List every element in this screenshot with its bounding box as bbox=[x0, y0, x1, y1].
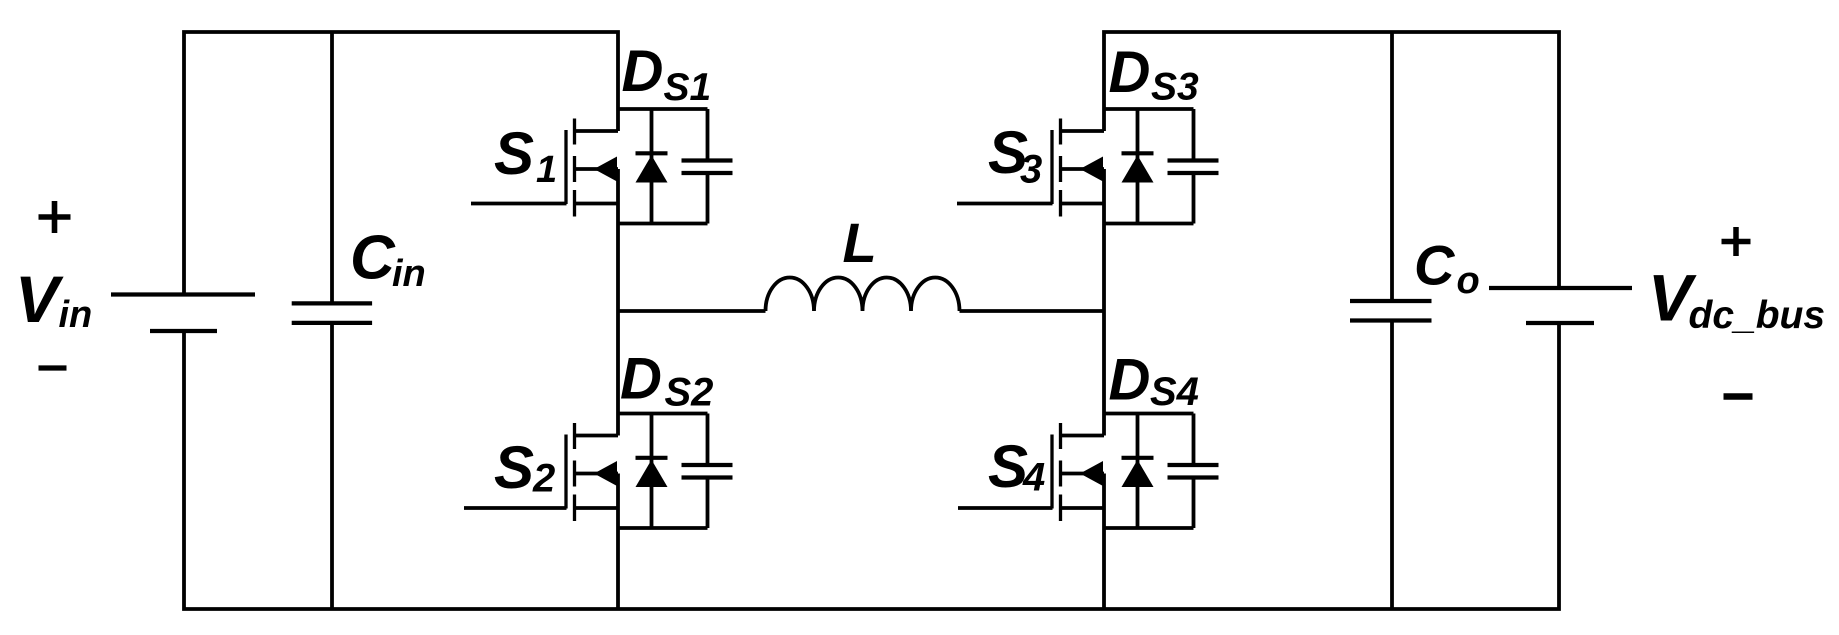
transistor S1 gate bar bbox=[564, 130, 567, 204]
battery Vin long positive plate bbox=[111, 292, 255, 296]
capacitor (snubber DS4) leads bbox=[1192, 414, 1196, 529]
diode DS4 vertical lead bbox=[1136, 414, 1140, 529]
svg-text:4: 4 bbox=[1022, 456, 1045, 500]
transistor S1 channel segments bbox=[573, 119, 576, 217]
transistor S2 gate bar bbox=[564, 435, 567, 509]
svg-text:V: V bbox=[15, 262, 64, 336]
svg-text:L: L bbox=[843, 211, 877, 274]
wire: bottom common rail with Vin- and Vdc- risers bbox=[184, 322, 1559, 609]
capacitor Co bottom lead bbox=[1390, 322, 1394, 609]
svg-text:S: S bbox=[494, 434, 534, 501]
capacitor Cin top lead bbox=[330, 32, 334, 302]
diode DS3 triangle bbox=[1122, 155, 1154, 182]
diode DS1 vertical lead bbox=[650, 109, 654, 224]
snubber DS2 bottom wire bbox=[618, 526, 708, 530]
transistor S1 gate lead bbox=[471, 202, 567, 206]
diode DS2 triangle bbox=[636, 460, 668, 487]
transistor S2 body lead with arrow bbox=[576, 472, 618, 476]
transistor S4 gate lead bbox=[958, 506, 1053, 510]
transistor S1 drain lead bbox=[576, 129, 618, 133]
svg-text:D: D bbox=[1109, 348, 1151, 413]
diode DS2 vertical lead bbox=[650, 414, 654, 529]
capacitor (snubber DS2) leads bbox=[706, 414, 710, 529]
svg-text:D: D bbox=[1109, 40, 1151, 105]
capacitor (snubber DS2) plates bbox=[682, 465, 733, 478]
label - (Vin) bbox=[39, 365, 67, 370]
battery Vdc_bus short negative plate bbox=[1526, 321, 1594, 325]
battery Vdc_bus long positive plate bbox=[1489, 286, 1632, 290]
diode DS2 cathode bar bbox=[636, 456, 668, 460]
label + (Vin) bbox=[39, 201, 71, 233]
capacitor (snubber DS4) plates bbox=[1168, 465, 1219, 478]
transistor S2 drain lead bbox=[576, 434, 618, 438]
svg-text:S4: S4 bbox=[1150, 370, 1199, 414]
svg-text:3: 3 bbox=[1020, 148, 1042, 192]
transistor S4 body lead with arrow bbox=[1062, 472, 1104, 476]
svg-text:in: in bbox=[59, 294, 93, 336]
svg-text:S1: S1 bbox=[664, 66, 712, 109]
transistor S2 gate lead bbox=[464, 506, 567, 510]
diode DS3 vertical lead bbox=[1136, 109, 1140, 224]
svg-text:o: o bbox=[1457, 260, 1480, 302]
battery Vin short negative plate bbox=[150, 329, 217, 333]
transistor S4 gate bar bbox=[1050, 435, 1053, 509]
capacitor (snubber DS1) plates bbox=[682, 161, 733, 174]
svg-text:S2: S2 bbox=[665, 371, 714, 415]
snubber DS4 top wire bbox=[1104, 412, 1194, 416]
transistor S4 drain lead bbox=[1062, 434, 1104, 438]
transistor S3 drain lead bbox=[1062, 129, 1104, 133]
transistor S3 channel segments bbox=[1059, 119, 1062, 217]
snubber DS3 top wire bbox=[1104, 107, 1194, 111]
transistor S2 source lead bbox=[576, 506, 618, 510]
transistor S1 source lead bbox=[576, 202, 618, 206]
snubber DS3 bottom wire bbox=[1104, 222, 1194, 226]
transistor S3 gate bar bbox=[1050, 130, 1053, 204]
wire: mid node to inductor bbox=[618, 309, 766, 313]
capacitor Cin plates bbox=[292, 301, 372, 305]
diode DS4 cathode bar bbox=[1122, 456, 1154, 460]
transistor S1 body lead with arrow bbox=[576, 167, 618, 171]
snubber DS2 top wire bbox=[618, 412, 708, 416]
transistor S2 channel segments bbox=[573, 423, 576, 521]
transistor S3 gate lead bbox=[957, 202, 1053, 206]
svg-text:1: 1 bbox=[536, 149, 557, 191]
inductor L bbox=[766, 278, 960, 312]
capacitor Co plates bbox=[1350, 299, 1432, 303]
svg-text:2: 2 bbox=[532, 457, 555, 501]
svg-text:C: C bbox=[350, 224, 396, 293]
wire: S4 source rail down to bottom rail bbox=[1102, 474, 1106, 610]
svg-text:dc_bus: dc_bus bbox=[1689, 294, 1826, 337]
diode DS3 cathode bar bbox=[1122, 151, 1154, 155]
svg-text:D: D bbox=[620, 347, 662, 412]
transistor S4 channel segments bbox=[1059, 423, 1062, 521]
wire: inductor to right leg mid node bbox=[960, 309, 1105, 313]
snubber DS1 bottom wire bbox=[618, 222, 708, 226]
wire: S3 source rail down to S4 drain (right mid node) bbox=[1102, 169, 1106, 436]
capacitor Co top lead bbox=[1390, 32, 1394, 300]
diode DS4 triangle bbox=[1122, 460, 1154, 487]
diode DS1 cathode bar bbox=[636, 151, 668, 155]
transistor S4 source lead bbox=[1062, 506, 1104, 510]
snubber DS1 top wire bbox=[618, 107, 708, 111]
capacitor Cin bottom lead bbox=[330, 325, 334, 609]
wire: S3 drain rail, top-right rail, Vdc+ riser bbox=[1104, 32, 1559, 289]
wire: S2 source rail down to bottom rail bbox=[616, 474, 620, 610]
wire: S1 source rail down to S2 drain (mid node) bbox=[616, 169, 620, 436]
svg-text:S3: S3 bbox=[1151, 66, 1199, 109]
capacitor (snubber DS3) leads bbox=[1192, 109, 1196, 224]
capacitor (snubber DS1) leads bbox=[706, 109, 710, 224]
transistor S3 source lead bbox=[1062, 202, 1104, 206]
wire: Vin+ rail up, top-left rail to S1 drain rail bbox=[184, 32, 618, 296]
capacitor (snubber DS3) plates bbox=[1168, 161, 1219, 174]
svg-text:C: C bbox=[1414, 234, 1456, 297]
diode DS1 triangle bbox=[636, 155, 668, 182]
svg-text:in: in bbox=[392, 253, 426, 295]
svg-text:S: S bbox=[494, 120, 534, 187]
label - (Vdc_bus) bbox=[1724, 393, 1753, 400]
transistor S3 body lead with arrow bbox=[1062, 167, 1104, 171]
snubber DS4 bottom wire bbox=[1104, 526, 1194, 530]
label + (Vdc_bus) bbox=[1722, 227, 1751, 256]
svg-text:D: D bbox=[622, 39, 664, 104]
